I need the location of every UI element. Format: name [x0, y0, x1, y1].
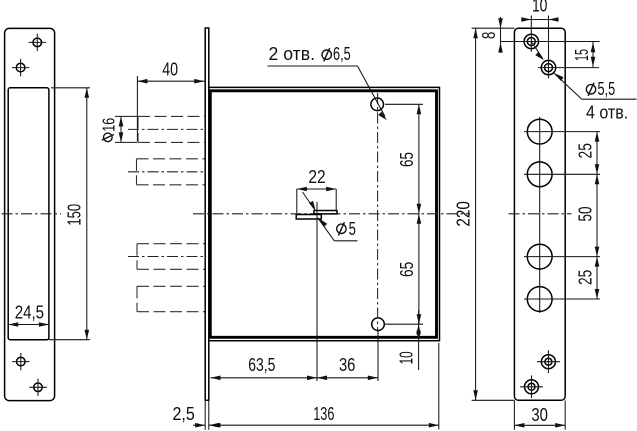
faceplate recess rectangle [8, 88, 49, 340]
key tab upper bar [314, 211, 337, 214]
svg-text:16: 16 [98, 118, 118, 132]
extension line bottom hole [377, 331, 379, 381]
dimension 2,5 [172, 404, 218, 428]
svg-text:25: 25 [576, 270, 596, 285]
dimension 150 [49, 88, 90, 340]
cylinder hole 2 [524, 162, 600, 187]
cylinder hole 1 [524, 119, 600, 144]
svg-text:36: 36 [339, 355, 356, 375]
back plate outline [514, 28, 565, 400]
bolt B1 centerline [128, 128, 206, 130]
countersunk screw hole second [538, 16, 599, 79]
bolt B2 hidden outline [137, 159, 205, 185]
lock case thick wall contour [210, 91, 436, 337]
dimension 15 [572, 42, 595, 68]
svg-text:10: 10 [532, 0, 548, 16]
dimension 63,5 and 36 [211, 355, 378, 380]
lock case thin outer contour [209, 87, 440, 340]
bolt B2 centerline [128, 171, 206, 173]
left view horizontal centerline [2, 213, 62, 215]
svg-text:22: 22 [308, 167, 325, 187]
bolt B3 hidden outline [137, 244, 205, 270]
faceplate extension lines down [204, 400, 206, 430]
note phi5 with leader [303, 192, 358, 241]
dimension 30 [514, 401, 565, 430]
screw hole lower-left [12, 353, 29, 370]
screw hole top-right [29, 34, 46, 51]
plate bottom extension line [472, 399, 515, 401]
extension line key hole center [316, 202, 318, 381]
right view horizontal centerline [509, 213, 572, 215]
dimension 136 [209, 404, 439, 427]
screw hole upper-left [12, 59, 29, 76]
bottom mounting hole [372, 318, 385, 331]
cylinder hole 3 [524, 244, 600, 269]
svg-text:24,5: 24,5 [15, 302, 44, 322]
svg-text:2,5: 2,5 [172, 404, 194, 424]
dimension 22 [297, 167, 336, 213]
key tab lower bar [296, 215, 321, 220]
svg-text:150: 150 [65, 204, 85, 226]
dimension 10 (hole offset) [521, 0, 558, 22]
svg-text:40: 40 [162, 59, 178, 79]
svg-text:5,5: 5,5 [598, 79, 616, 99]
svg-text:65: 65 [397, 152, 417, 167]
svg-text:50: 50 [576, 207, 596, 222]
dimension 40 [137, 59, 204, 141]
bolt B1 hidden outline [138, 116, 205, 142]
vertical axis through cylinder holes [539, 117, 541, 313]
dimensions 25 / 50 / 25 [576, 132, 600, 299]
dimension 8 [479, 17, 503, 53]
faceplate outline [5, 28, 55, 400]
svg-text:10: 10 [397, 351, 417, 364]
dimension phi16 [98, 116, 137, 142]
dimension 220 [453, 28, 478, 400]
svg-text:2 отв.: 2 отв. [269, 44, 316, 64]
main horizontal centerline [193, 213, 470, 215]
countersunk screw hole top [501, 16, 600, 52]
dimension 10 (bottom hole to case bottom) [397, 310, 421, 370]
svg-text:4 отв.: 4 отв. [586, 102, 628, 122]
svg-text:6,5: 6,5 [333, 44, 351, 64]
case right extension line down [438, 343, 440, 430]
bolt B3 centerline [128, 256, 206, 258]
dimension 24,5 [8, 302, 49, 326]
bottom screw hole right [537, 350, 560, 373]
leader across screw holes [531, 42, 636, 123]
faceplate edge-on strip [205, 28, 210, 400]
svg-text:136: 136 [313, 404, 334, 424]
svg-text:220: 220 [453, 201, 473, 227]
top mounting hole [371, 98, 384, 111]
cylinder hole 4 [524, 287, 600, 312]
bolt B4 hidden outline [137, 286, 205, 311]
note 2 holes phi6,5 with leader [268, 44, 388, 120]
svg-text:8: 8 [479, 32, 499, 40]
plate top extension line [472, 27, 515, 29]
vertical centerline through mounting holes [377, 93, 379, 332]
svg-text:65: 65 [397, 262, 417, 277]
svg-text:30: 30 [531, 405, 548, 425]
svg-text:63,5: 63,5 [248, 355, 275, 375]
svg-text:5: 5 [349, 219, 356, 239]
dimensions 65 / 65 [385, 104, 423, 324]
svg-text:15: 15 [572, 49, 592, 61]
screw hole bottom-right [29, 379, 46, 396]
svg-text:25: 25 [576, 143, 596, 158]
bottom screw hole left [520, 375, 543, 398]
